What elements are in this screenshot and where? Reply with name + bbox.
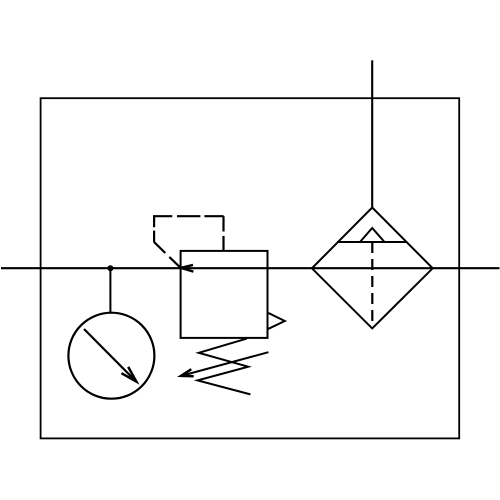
outlet pipe (top) bbox=[371, 60, 373, 208]
junction dot bbox=[107, 265, 113, 271]
flow arrowhead on regulator inlet bbox=[181, 265, 194, 272]
gauge needle arrowhead bbox=[121, 367, 136, 382]
filter F1 body (diamond) bbox=[312, 208, 433, 329]
adjustment arrow shaft bbox=[181, 352, 268, 376]
spring (zigzag) bbox=[198, 339, 251, 395]
pilot line diagonal dashed segment bbox=[154, 242, 181, 268]
pressure gauge G1 (circle) bbox=[68, 313, 154, 399]
filter element chord bbox=[337, 241, 407, 243]
adjustment arrowhead bbox=[181, 369, 194, 376]
pilot line top dashed segment bbox=[153, 215, 223, 217]
filter float triangle bbox=[360, 228, 385, 242]
regulator R1 body (square) bbox=[181, 251, 268, 338]
relief vent triangle bbox=[268, 313, 285, 330]
pilot line right dashed segment bbox=[222, 216, 224, 250]
filter drain line (dashed) bbox=[371, 242, 373, 328]
pilot line left dashed segment bbox=[153, 215, 155, 242]
gauge branch line bbox=[109, 268, 111, 313]
gauge needle bbox=[84, 329, 136, 381]
main flow line bbox=[1, 267, 500, 269]
enclosure (assembly boundary) bbox=[41, 98, 460, 438]
